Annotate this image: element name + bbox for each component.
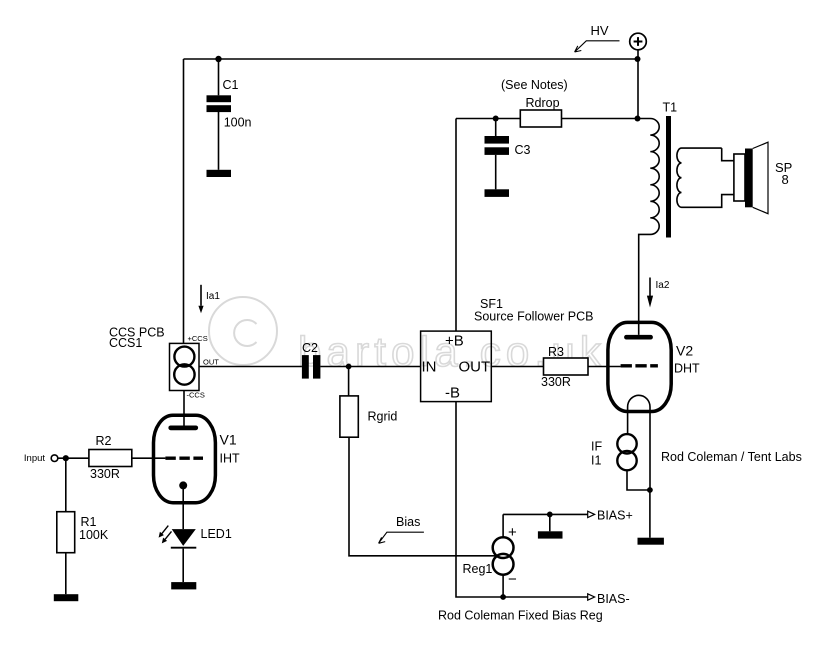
svg-text:330R: 330R: [541, 375, 571, 389]
svg-text:LED1: LED1: [201, 527, 232, 541]
svg-text:I1: I1: [591, 454, 601, 468]
svg-text:Rod Coleman Fixed Bias Reg: Rod Coleman Fixed Bias Reg: [438, 609, 603, 623]
svg-text:Source Follower PCB: Source Follower PCB: [474, 310, 594, 324]
svg-text:T1: T1: [663, 101, 678, 115]
svg-text:100K: 100K: [79, 528, 109, 542]
svg-text:DHT: DHT: [674, 362, 700, 376]
svg-text:Reg1: Reg1: [463, 562, 493, 576]
svg-text:R3: R3: [548, 345, 564, 359]
svg-text:HV: HV: [591, 23, 609, 38]
svg-text:IN: IN: [422, 358, 437, 375]
svg-text:BIAS+: BIAS+: [597, 509, 633, 523]
svg-text:+B: +B: [445, 333, 464, 350]
svg-text:V1: V1: [220, 432, 237, 448]
svg-text:IHT: IHT: [220, 452, 241, 466]
svg-text:+: +: [508, 524, 517, 541]
svg-text:Rgrid: Rgrid: [368, 410, 398, 424]
svg-text:330R: 330R: [90, 467, 120, 481]
svg-text:V2: V2: [676, 343, 693, 359]
svg-text:100n: 100n: [224, 116, 252, 130]
svg-text:Rod Coleman / Tent Labs: Rod Coleman / Tent Labs: [661, 450, 802, 464]
svg-text:8: 8: [782, 172, 789, 187]
svg-text:-B: -B: [445, 385, 460, 402]
svg-text:IF: IF: [591, 440, 602, 454]
svg-text:C2: C2: [302, 341, 318, 355]
svg-text:Ia2: Ia2: [656, 280, 670, 291]
svg-text:OUT: OUT: [459, 358, 491, 375]
svg-text:C1: C1: [223, 78, 239, 92]
svg-text:Bias: Bias: [396, 515, 420, 529]
svg-text:R1: R1: [81, 515, 97, 529]
svg-text:Rdrop: Rdrop: [526, 96, 560, 110]
svg-text:CCS1: CCS1: [109, 336, 142, 350]
svg-text:Input: Input: [24, 453, 45, 464]
svg-text:Ia1: Ia1: [206, 291, 220, 302]
svg-text:R2: R2: [96, 434, 112, 448]
svg-text:OUT: OUT: [203, 358, 219, 367]
svg-text:−: −: [508, 571, 517, 588]
svg-text:+CCS: +CCS: [188, 334, 208, 343]
svg-text:-CCS: -CCS: [187, 391, 205, 400]
svg-text:C3: C3: [515, 143, 531, 157]
svg-text:(See Notes): (See Notes): [501, 78, 568, 92]
svg-text:BIAS-: BIAS-: [597, 592, 630, 606]
